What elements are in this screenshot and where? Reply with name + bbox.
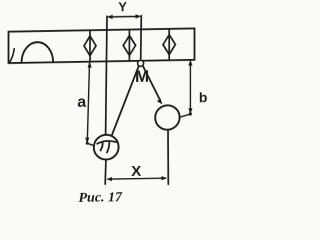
arrow at ball end of M string	[157, 98, 163, 104]
beam (ceiling bar) outline	[9, 28, 195, 63]
dimension a line	[87, 63, 89, 143]
string below ball	[167, 130, 169, 184]
svg-text:Рис. 17: Рис. 17	[79, 190, 124, 206]
link b-dot to ball	[180, 114, 190, 117]
dimension X line	[109, 177, 166, 180]
svg-text:Y: Y	[118, 0, 127, 14]
svg-text:a: a	[77, 94, 86, 111]
corner curl at beam left end	[9, 49, 14, 63]
hook rod 1	[89, 30, 91, 61]
string below dynamometer	[104, 160, 107, 184]
junction dot a/dynamometer	[86, 142, 89, 145]
hook diamond 1	[84, 36, 96, 56]
string: knot M suspension (through beam, Y right tick)	[140, 16, 143, 61]
dynamometer dial mark (pi-like symbol)	[97, 141, 116, 144]
dimension b bottom arrow	[188, 108, 192, 114]
string M to ball	[143, 66, 160, 101]
hook diamond 2	[123, 35, 135, 55]
hook diamond 3	[163, 35, 175, 55]
ball (weight)	[155, 105, 179, 130]
hook rod 3	[168, 29, 170, 60]
svg-text:X: X	[131, 163, 141, 180]
dimension Y line	[109, 15, 139, 18]
string: dynamometer suspension (through beam, Y left tick)	[106, 16, 107, 134]
link a-dot to dynamometer	[88, 143, 94, 145]
node M (small ring)	[138, 60, 144, 66]
dimension X right arrow	[162, 176, 168, 180]
svg-text:b: b	[199, 89, 208, 105]
dimension a top arrow	[88, 62, 92, 68]
dimension a bottom arrow	[85, 137, 89, 143]
dynamometer body	[94, 135, 119, 160]
string M to dynamometer	[112, 66, 139, 135]
hook rod 2	[128, 30, 130, 61]
junction dot b/ball	[189, 112, 192, 115]
dimension b line	[189, 62, 191, 114]
dimension Y left arrow	[107, 15, 113, 19]
dimension Y right arrow	[136, 14, 142, 18]
dimension b top arrow	[188, 60, 192, 66]
arch cutout in beam	[22, 42, 54, 63]
dimension X left arrow	[106, 177, 112, 181]
